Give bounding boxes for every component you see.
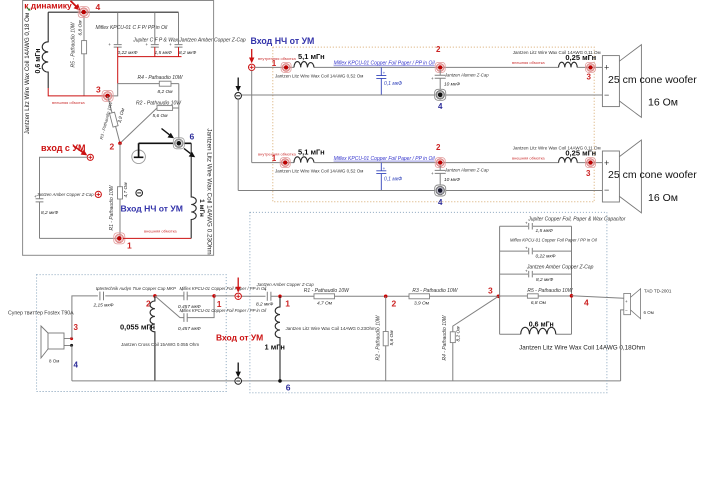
svg-text:8,2 Ом: 8,2 Ом	[456, 326, 462, 342]
svg-text:Miflex KPCU-01 Copper Foil Pap: Miflex KPCU-01 Copper Foil Paper / PP in…	[180, 286, 268, 291]
svg-text:Intertechnik Audyn True Copper: Intertechnik Audyn True Copper Cap MKP	[96, 286, 176, 291]
label 1	[272, 154, 277, 163]
label R4 - Pathaudio 10W	[137, 75, 183, 81]
svg-text:16 Ом: 16 Ом	[648, 97, 678, 109]
svg-text:1: 1	[217, 299, 222, 309]
wire caps to junction (red)	[118, 47, 182, 84]
svg-text:Jantzen Amber Copper Z-Cap: Jantzen Amber Copper Z-Cap	[178, 37, 246, 43]
label Jantzen Litz Wire Wax Coil 14AWG 0,18Ohm	[519, 345, 645, 352]
svg-text:Miflex KPCU-01 Copper Foil Pap: Miflex KPCU-01 Copper Foil Paper / PP in…	[334, 61, 436, 67]
label R3 - Pathaudio 10W (TAD)	[412, 288, 458, 294]
svg-text:Jantzen Alumen Z-Cap: Jantzen Alumen Z-Cap	[444, 72, 489, 77]
value 8,2 мкФ (box)	[536, 277, 554, 283]
svg-text:Jantzen Amber Copper Z-Cap: Jantzen Amber Copper Z-Cap	[256, 282, 315, 287]
value 0,1 мкФ (row 2)	[384, 176, 402, 182]
arrow out of node 6	[184, 149, 195, 158]
svg-text:2: 2	[392, 299, 397, 309]
value 8,2 мкФ (bottom)	[256, 302, 274, 308]
capacitor C 1,5 мкФ (Jupiter)	[145, 42, 158, 47]
svg-text:Miflex KPCU-01 Copper Foil Pap: Miflex KPCU-01 Copper Foil Paper / PP in…	[334, 156, 436, 162]
value 0,055 мГн	[120, 323, 155, 332]
resistor R4 (TAD, diagonal feed)	[450, 296, 498, 381]
wire node1(fostex) to plus terminal	[214, 295, 265, 297]
wire node2 to node1 (upper cap branch)	[157, 295, 214, 297]
resistor R3 (diagonal)	[108, 96, 120, 143]
inductor 1 мГн (right vertical coil)	[191, 143, 196, 238]
svg-text:4: 4	[74, 361, 79, 370]
arrow to plus terminal	[73, 146, 87, 156]
wire minus rail down to row 2 return	[237, 99, 239, 190]
svg-text:4: 4	[438, 102, 443, 111]
inductor 5,1 мГн (row 1)	[294, 62, 314, 68]
value 5,6 Ом (TAD)	[389, 330, 395, 346]
capacitor 0,1 мкФ (row 1, blue)	[376, 67, 386, 94]
rung 3 with capacitor 8,2 мкФ Jantzen Amber	[500, 269, 572, 278]
svg-text:Jantzen Litz Wire Wax Coil 14A: Jantzen Litz Wire Wax Coil 14AWG 0.23Ohm	[206, 128, 213, 254]
wire row2 main	[252, 162, 603, 164]
svg-text:Супер твиттер Fostex T90A: Супер твиттер Fostex T90A	[8, 311, 74, 317]
label 2 (TAD)	[392, 299, 397, 309]
label внутренняя обмотка	[258, 56, 296, 61]
inductor 0,25 мГн (row 2)	[559, 157, 578, 162]
resistor R1	[118, 143, 123, 238]
arrow into node 6	[162, 129, 175, 139]
svg-text:внешняя обмотка: внешняя обмотка	[512, 60, 545, 65]
svg-text:0,22 мкФ: 0,22 мкФ	[118, 50, 138, 56]
capacitor 8,2 мкФ Jantzen Amber Copper Z-Cap	[264, 287, 278, 300]
svg-text:R5 - Pathaudio 10W: R5 - Pathaudio 10W	[527, 288, 573, 294]
svg-text:1 мГн: 1 мГн	[198, 199, 205, 217]
label 3 (fostex)	[74, 323, 79, 332]
node 4 (TAD)	[570, 294, 574, 298]
label внешняя обмотка	[512, 60, 545, 65]
svg-text:Jantzen Cross Coil 15AWG 0.055: Jantzen Cross Coil 15AWG 0.055 Ohm	[121, 342, 199, 347]
svg-text:1: 1	[272, 59, 277, 68]
svg-text:5,6 Ом: 5,6 Ом	[389, 330, 395, 346]
value 3,9 Ом (TAD)	[414, 300, 430, 306]
inductor 0,055 мГн	[150, 296, 155, 381]
node 2 row1	[435, 62, 445, 72]
label "к динамику"	[24, 0, 72, 10]
label Jantzen Litz Wire Wax Coil 14AWG 0,11 Ом (row2)	[513, 145, 601, 150]
node 1 (TAD)	[278, 295, 282, 299]
value 8,2 мкФ	[41, 210, 59, 216]
svg-text:1: 1	[272, 154, 277, 163]
enclosure box	[23, 1, 214, 256]
svg-text:0,457 мкФ: 0,457 мкФ	[178, 326, 201, 332]
wire thick to node 6	[139, 142, 192, 144]
value 8,2 Ом (TAD)	[456, 326, 462, 342]
label Jantzen Amber Copper Z-Cap	[36, 192, 95, 197]
svg-text:+: +	[604, 158, 609, 168]
label Miflex KPCU-01 Copper Foil Paper / PP in Oil (lower)	[180, 308, 268, 313]
svg-text:+: +	[169, 42, 172, 47]
capacitor 10 мкФ Jantzen Alumen Z-Cap (row 1)	[431, 70, 446, 91]
svg-text:Jantzen Amber Copper Z-Cap: Jantzen Amber Copper Z-Cap	[36, 192, 95, 197]
svg-text:0,25 мГн: 0,25 мГн	[565, 53, 596, 62]
svg-text:10 мкФ: 10 мкФ	[444, 177, 460, 183]
svg-text:+: +	[525, 246, 528, 251]
label внешняя обмотка	[144, 228, 177, 233]
label R5 - Pathaudio 10W (box)	[527, 288, 573, 294]
label Miflex KPCU-01 Copper Foil Paper / PP in Oil (box)	[510, 237, 598, 242]
terminal plus (Вход от УМ)	[235, 293, 241, 299]
svg-text:Jantzen Litz Wire Wax Coil 14A: Jantzen Litz Wire Wax Coil 14AWG 0.23Ohm	[286, 326, 376, 331]
label R2 - Pathaudio 10W (TAD)	[376, 314, 382, 360]
svg-text:0,6 мГн: 0,6 мГн	[35, 49, 42, 74]
svg-text:5,6 Ом: 5,6 Ом	[152, 113, 168, 119]
svg-text:3: 3	[96, 85, 101, 95]
label Jantzen Amber Copper Z-Cap (bottom)	[256, 282, 315, 287]
capacitor 0,457 мкФ (lower)	[181, 309, 187, 322]
svg-text:0,055 мГн: 0,055 мГн	[120, 323, 155, 332]
node 2 (fostex)	[153, 294, 157, 298]
svg-text:0,1 мкФ: 0,1 мкФ	[384, 81, 402, 87]
svg-text:TAD TD-2001: TAD TD-2001	[644, 288, 672, 293]
svg-text:Jantzen Litz Wire Wax Coil 14A: Jantzen Litz Wire Wax Coil 14AWG 0,18Ohm	[519, 345, 645, 352]
label 16 Ом	[648, 97, 678, 109]
svg-text:Jupiter Copper Foil, Paper & W: Jupiter Copper Foil, Paper & Wax Capacit…	[527, 216, 626, 222]
node 3 (TAD)	[497, 295, 501, 299]
label Jantzen Cross Coil 15AWG 0.055 Ohm	[121, 342, 199, 347]
svg-text:2,15 мкФ: 2,15 мкФ	[93, 302, 114, 308]
label 4 (row2)	[438, 198, 443, 207]
label TAD TD-2001	[644, 288, 672, 293]
wire top (node4 rail)	[48, 12, 178, 44]
parallel network box	[500, 226, 572, 334]
fostex dashed box	[37, 275, 227, 392]
svg-text:0,6 мГн: 0,6 мГн	[529, 322, 554, 329]
value 3,9 Ом	[117, 107, 127, 124]
svg-text:10 мкФ: 10 мкФ	[444, 82, 460, 88]
svg-text:16 Ом: 16 Ом	[648, 192, 678, 204]
resistor R1 (TAD)	[282, 294, 384, 299]
svg-text:+: +	[625, 299, 628, 304]
label Jantzen Litz Wire Wax Coil 14AWG 0,52 Ом	[275, 73, 363, 78]
rung 2 with capacitor 0,22 мкФ Miflex	[500, 246, 572, 255]
value 1 мГн	[198, 199, 205, 217]
label Jantzen Alumen Z-Cap (row2)	[444, 168, 489, 173]
value 8,2 мкФ	[179, 50, 197, 56]
inductor 0,25 мГн (row 1)	[559, 62, 578, 67]
svg-text:вход с УМ: вход с УМ	[41, 143, 86, 153]
svg-text:2: 2	[110, 142, 115, 152]
svg-text:+: +	[604, 63, 609, 73]
label внешняя обмотка (row2)	[512, 155, 545, 160]
svg-text:Вход НЧ от УМ: Вход НЧ от УМ	[121, 204, 183, 214]
label Jantzen Amber Copper Z-Cap (box)	[526, 264, 594, 270]
inductor 0,6 мГн (bottom edge)	[521, 327, 556, 334]
rung 4 with resistor R5	[500, 294, 572, 298]
svg-text:3: 3	[74, 323, 79, 332]
label Miflex KPCU-01 Copper Foil Paper / PP in Oil (blue, underlined)	[334, 61, 436, 67]
label 2 (row2)	[436, 143, 441, 152]
arrow into plus terminal (Вход от УМ)	[236, 278, 241, 293]
label R1 - Pathaudio 10W (TAD)	[304, 288, 350, 294]
node 1 (fostex)	[212, 294, 216, 298]
capacitor 1,5 мкФ Jupiter (top edge)	[525, 221, 532, 230]
label Jupiter C F P & Wax	[132, 37, 178, 43]
svg-text:3: 3	[488, 286, 493, 296]
value 2,15 мкФ	[93, 302, 114, 308]
label 16 Ом (2)	[648, 192, 678, 204]
label Супер твиттер Fostex T90A	[8, 311, 74, 317]
wire diagonal branch (lower cap)	[155, 296, 214, 318]
value 0,22 мкФ	[118, 50, 138, 56]
svg-text:4: 4	[438, 198, 443, 207]
capacitor C 0,22 мкФ (Miflex)	[108, 42, 121, 47]
label 4 (TAD)	[584, 298, 589, 308]
svg-text:+: +	[383, 71, 386, 76]
svg-text:6,8 Ом: 6,8 Ом	[531, 300, 547, 306]
value 0,22 мкФ (box)	[536, 254, 556, 260]
svg-text:Jantzen Litz Wire Wax Coil 14A: Jantzen Litz Wire Wax Coil 14AWG 0,18 Ом	[24, 13, 31, 134]
svg-text:внутренняя обмотка: внутренняя обмотка	[258, 152, 296, 157]
svg-text:25 cm cone woofer: 25 cm cone woofer	[608, 74, 697, 86]
svg-text:8,2 Ом: 8,2 Ом	[157, 89, 173, 95]
svg-text:+: +	[264, 287, 267, 292]
capacitor 0,457 мкФ (upper)	[181, 287, 187, 300]
label 8 Ом	[49, 359, 59, 364]
label 1	[272, 59, 277, 68]
tweeter TAD TD-2001	[624, 289, 641, 319]
svg-text:R3 - Pathaudio 10W: R3 - Pathaudio 10W	[412, 288, 458, 294]
svg-text:6: 6	[190, 132, 195, 142]
terminal plus (вход с УМ)	[87, 154, 93, 160]
value 5,1 мГн	[298, 147, 325, 156]
value 5,6 Ом	[152, 113, 168, 119]
svg-text:Jantzen Amber Copper Z-Cap: Jantzen Amber Copper Z-Cap	[526, 264, 594, 270]
label 6 Ом	[644, 310, 654, 315]
wire tweeter plus up to filter	[72, 296, 153, 339]
terminal plus symbol	[95, 191, 101, 197]
wire row2 return	[238, 190, 602, 192]
value 8,2 Ом	[157, 89, 173, 95]
svg-text:Miflex KPCU-01 Copper Foil Pap: Miflex KPCU-01 Copper Foil Paper / PP in…	[180, 308, 268, 313]
svg-text:4: 4	[96, 2, 101, 12]
label R5 - Pathaudio 10W	[71, 21, 77, 67]
label Miflex KPCU-01 C F P/ PP in Oil	[96, 25, 169, 31]
label R2 - Pathaudio 10W	[136, 100, 182, 106]
value 0,25 мГн (row2)	[565, 148, 596, 157]
svg-text:1: 1	[127, 241, 132, 251]
node 6	[173, 138, 184, 149]
inductor 5,1 мГн (row 2)	[294, 157, 314, 163]
svg-text:5,1 мГн: 5,1 мГн	[298, 52, 325, 61]
arrow to node 4	[71, 1, 81, 11]
svg-text:1,5 мкФ: 1,5 мкФ	[536, 228, 554, 234]
label 1 (fostex)	[217, 299, 222, 309]
svg-text:6 Ом: 6 Ом	[644, 310, 654, 315]
value 10 мкФ	[444, 82, 460, 88]
label Jantzen Litz Wire Wax Coil 14AWG 0,11 Ом (row1)	[513, 50, 601, 55]
value 0,25 мГн	[565, 53, 596, 62]
svg-text:+: +	[383, 166, 386, 171]
label 3 (TAD)	[488, 286, 493, 296]
inductor 1 мГн (TAD shunt)	[275, 296, 280, 381]
label внешняя обмотка	[52, 100, 85, 105]
capacitor 2,15 мкФ Intertechnik	[97, 287, 104, 300]
label 4 (fostex)	[74, 361, 79, 370]
label Jantzen Litz Wire Wax Coil 14AWG 0,52 Ом (row2)	[275, 169, 363, 174]
capacitor 10 мкФ Jantzen Alumen Z-Cap (row 2)	[431, 165, 446, 186]
node 3 row1	[586, 62, 596, 72]
svg-text:R1 - Pathaudio 10W: R1 - Pathaudio 10W	[109, 184, 115, 230]
svg-text:+: +	[431, 76, 434, 81]
label вход с УМ	[41, 143, 86, 153]
label 4	[96, 2, 101, 12]
value 6,8 Ом	[78, 20, 84, 36]
arrow into plus terminal	[249, 49, 254, 63]
terminal minus (Вход от УМ)	[235, 378, 242, 385]
svg-text:8,2 мкФ: 8,2 мкФ	[41, 210, 59, 216]
node 3 row2	[586, 158, 596, 168]
terminal minus symbol	[136, 190, 143, 197]
node 1 row1	[281, 62, 291, 72]
label 1	[127, 241, 132, 251]
value 5,1 мГн	[298, 52, 325, 61]
node 1 row2	[280, 158, 290, 168]
value 0,457 мкФ (lower)	[178, 326, 201, 332]
capacitor Jantzen Amber Copper Z-Cap 8,2 мкФ	[34, 194, 43, 202]
svg-text:к динамику: к динамику	[24, 0, 72, 10]
label 25 cm cone woofer	[608, 74, 697, 86]
svg-text:внешняя обмотка: внешняя обмотка	[52, 100, 85, 105]
node 4 row2	[435, 185, 446, 196]
value 0,1 мкФ	[384, 81, 402, 87]
svg-text:4,7 Ом: 4,7 Ом	[317, 300, 333, 306]
label Вход НЧ от УМ (top)	[251, 36, 315, 46]
wire row1 main	[255, 66, 603, 68]
capacitor 0,1 мкФ (row 2)	[376, 163, 386, 191]
svg-text:R1 - Pathaudio 10W: R1 - Pathaudio 10W	[304, 288, 350, 294]
terminal minus (НЧ input)	[235, 93, 242, 100]
svg-text:внешняя обмотка: внешняя обмотка	[512, 155, 545, 160]
label R4 - Pathaudio 10W (TAD)	[442, 314, 448, 360]
node 4 row1	[435, 89, 446, 100]
node 6 (TAD)	[278, 379, 282, 383]
node 2	[118, 142, 122, 146]
wire tweeter minus to bottom rail	[621, 310, 624, 381]
inductor 0,6 мГн (left vertical coil)	[42, 12, 48, 88]
label R3 - Pathaudio 10W	[99, 100, 114, 140]
svg-text:0,22 мкФ: 0,22 мкФ	[536, 254, 556, 260]
svg-text:−: −	[604, 185, 609, 195]
capacitor C 8,2 мкФ (Jantzen Amber)	[169, 42, 182, 47]
wire node1 bottom (red)	[123, 237, 191, 239]
woofer 2	[602, 140, 641, 213]
svg-text:2: 2	[436, 45, 441, 54]
label 25 cm cone woofer (2)	[608, 169, 697, 181]
vertical text left: Jantzen Litz Wire Wax Coil 14AWG 0,18 Ом	[24, 13, 31, 134]
resistor R2	[120, 106, 179, 144]
svg-text:1 мГн: 1 мГн	[265, 343, 285, 352]
svg-text:Jantzen Alumen Z-Cap: Jantzen Alumen Z-Cap	[444, 168, 489, 173]
label Jupiter Copper Foil, Paper & Wax Capacitor	[527, 216, 626, 222]
svg-text:Вход НЧ от УМ: Вход НЧ от УМ	[251, 36, 315, 46]
green mark	[27, 8, 31, 11]
label 6 (TAD)	[286, 383, 291, 393]
label 3	[96, 85, 101, 95]
svg-text:внешняя обмотка: внешняя обмотка	[144, 228, 177, 233]
svg-text:6,8 Ом: 6,8 Ом	[78, 20, 84, 36]
label 2	[436, 45, 441, 54]
svg-text:1: 1	[285, 299, 290, 309]
wire tweeter minus to bottom rail	[71, 345, 73, 381]
svg-text:4,7 Ом: 4,7 Ом	[123, 182, 129, 198]
woofer section dashed box	[273, 47, 594, 202]
svg-text:R4 - Pathaudio 10W: R4 - Pathaudio 10W	[442, 314, 448, 360]
svg-text:8 Ом: 8 Ом	[49, 359, 59, 364]
svg-text:+: +	[431, 171, 434, 176]
label 3 (row2)	[586, 169, 591, 178]
svg-text:0,25 мГн: 0,25 мГн	[565, 148, 596, 157]
wire node 4 to tweeter	[572, 296, 624, 299]
svg-text:5,1 мГн: 5,1 мГн	[298, 147, 325, 156]
value 0,6 мГн	[35, 49, 42, 74]
value 1,5 мкФ (box)	[536, 228, 554, 234]
value 0,6 мГн (box)	[529, 322, 554, 329]
label Miflex KPCU-01 Copper Foil Paper / PP in Oil (upper)	[180, 286, 268, 291]
wire plus terminal to capacitor chain	[40, 157, 120, 238]
value 1 мГн (TAD)	[265, 343, 285, 352]
svg-text:R2 - Pathaudio 10W: R2 - Pathaudio 10W	[376, 314, 382, 360]
value 10 мкФ (row2)	[444, 177, 460, 183]
arrow into minus terminal	[236, 78, 241, 92]
label Вход от УМ	[216, 333, 263, 343]
svg-text:внутренняя обмотка: внутренняя обмотка	[258, 56, 296, 61]
label Miflex KPCU-01 Copper Foil Paper / PP in Oil (row2)	[334, 156, 436, 162]
label Intertechnik Audyn True Copper Cap MKP	[96, 286, 176, 291]
svg-text:1,5 мкФ: 1,5 мкФ	[155, 50, 173, 56]
svg-text:8,2 мкФ: 8,2 мкФ	[179, 50, 197, 56]
resistor R4	[118, 81, 179, 86]
label 2	[110, 142, 115, 152]
label 4	[438, 102, 443, 111]
wire R4/R2 to node 6	[178, 84, 180, 138]
value 4,7 Ом	[123, 182, 129, 198]
value 4,7 Ом (TAD)	[317, 300, 333, 306]
vertical text right: Jantzen Litz Wire Wax Coil 14AWG 0.23Ohm	[206, 128, 213, 254]
label 1 (TAD)	[285, 299, 290, 309]
svg-text:Jantzen Litz Wire Wax Coil 14A: Jantzen Litz Wire Wax Coil 14AWG 0,52 Ом	[275, 169, 363, 174]
svg-text:0,1 мкФ: 0,1 мкФ	[384, 176, 402, 182]
label 3	[587, 73, 592, 82]
wire row1 return	[242, 94, 603, 96]
resistor R5	[82, 16, 87, 96]
node 2 (TAD)	[384, 295, 388, 299]
label 2 (fostex)	[146, 298, 151, 308]
value 6,8 Ом (box)	[531, 300, 547, 306]
resistor R2 (TAD, vertical)	[383, 296, 388, 381]
svg-text:Вход от УМ: Вход от УМ	[216, 333, 263, 343]
bottom rail wire	[72, 380, 621, 382]
svg-text:8,2 мкФ: 8,2 мкФ	[536, 277, 554, 283]
value 1,5 мкФ	[155, 50, 173, 56]
svg-text:3,9 Ом: 3,9 Ом	[414, 300, 430, 306]
svg-text:+: +	[108, 42, 111, 47]
label R1 - Pathaudio 10W	[109, 184, 115, 230]
svg-text:2: 2	[436, 143, 441, 152]
wire coil to node 3 (red, внешняя обмотка)	[48, 88, 107, 96]
svg-text:6: 6	[286, 383, 291, 393]
value 0,457 мкФ (upper)	[178, 304, 201, 310]
svg-text:Miflex KPCU-01 Copper Foil Pap: Miflex KPCU-01 Copper Foil Paper / PP in…	[510, 237, 598, 242]
wire plus rail down to row 2	[251, 71, 253, 163]
node 4	[78, 7, 89, 18]
label 6	[190, 132, 195, 142]
svg-text:−: −	[625, 308, 628, 313]
